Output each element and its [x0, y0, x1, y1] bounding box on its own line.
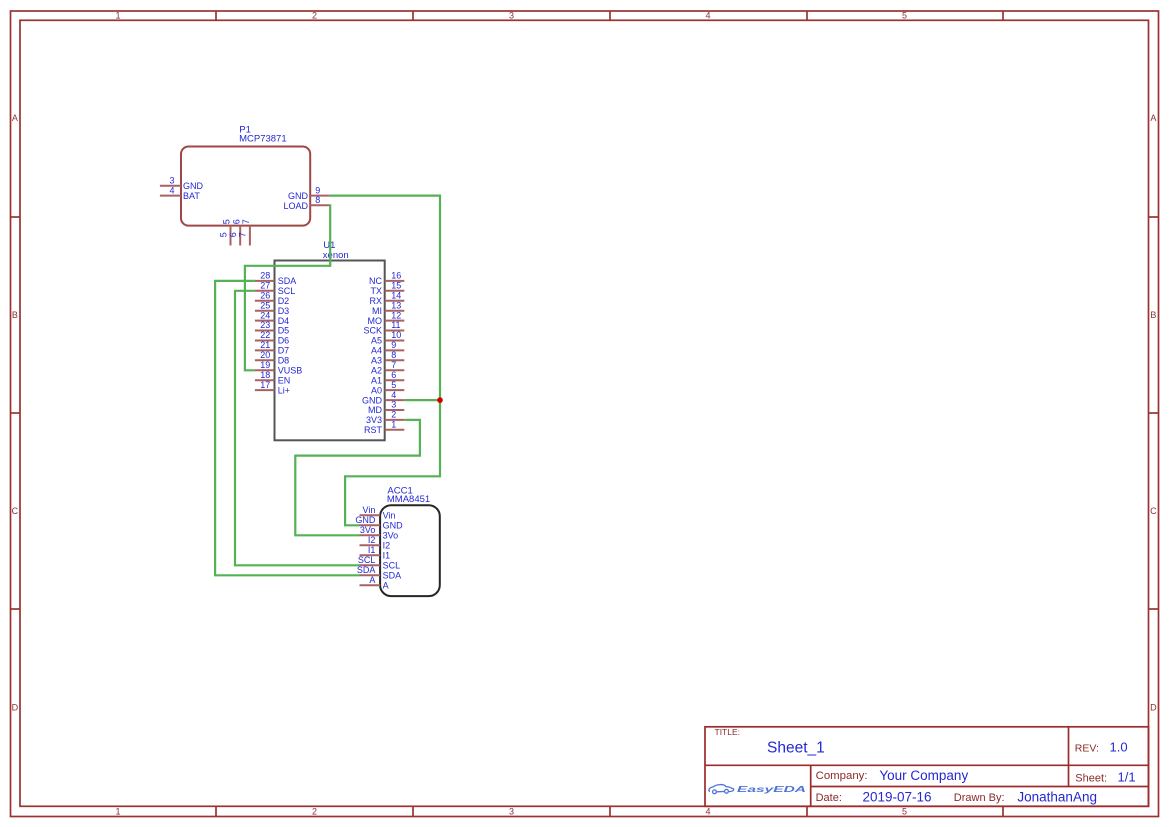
- pin 21 (D7) of U1: [255, 340, 289, 356]
- svg-text:4: 4: [705, 11, 710, 21]
- svg-text:A: A: [1150, 113, 1156, 123]
- svg-text:2: 2: [312, 807, 317, 817]
- svg-text:5: 5: [902, 807, 907, 817]
- svg-text:D4: D4: [278, 316, 290, 326]
- svg-text:20: 20: [260, 350, 270, 360]
- svg-text:6: 6: [231, 219, 241, 224]
- pin 25 (D3) of U1: [255, 300, 289, 316]
- svg-text:A: A: [369, 575, 375, 585]
- pin 23 (D5) of U1: [255, 320, 289, 336]
- svg-text:19: 19: [260, 360, 270, 370]
- svg-text:8: 8: [391, 350, 396, 360]
- svg-text:16: 16: [391, 271, 401, 281]
- pin 13 (MI) of U1: [372, 300, 404, 316]
- svg-text:C: C: [12, 506, 19, 516]
- svg-text:MI: MI: [372, 306, 382, 316]
- pin 24 (D4) of U1: [255, 310, 289, 326]
- svg-text:A0: A0: [371, 385, 382, 395]
- svg-text:A2: A2: [371, 366, 382, 376]
- svg-text:MD: MD: [368, 405, 382, 415]
- svg-text:21: 21: [260, 340, 270, 350]
- svg-text:3: 3: [391, 400, 396, 410]
- pin 15 (TX) of U1: [370, 281, 404, 297]
- svg-text:TITLE:: TITLE:: [715, 727, 741, 737]
- svg-text:2: 2: [391, 410, 396, 420]
- pin 8 (LOAD) of P1: [283, 195, 329, 211]
- svg-text:7: 7: [241, 219, 251, 224]
- svg-text:22: 22: [260, 330, 270, 340]
- pin 5 of P1 (bottom): [218, 219, 231, 245]
- svg-text:6: 6: [391, 370, 396, 380]
- wire net GND: P1 pin 9 to ACC1 GND: [330, 196, 440, 526]
- wire net LOAD: P1 pin 8 to U1 pin 19 VUSB: [245, 205, 330, 370]
- svg-text:14: 14: [391, 291, 401, 301]
- pin 16 (NC) of U1: [369, 271, 404, 287]
- pin 27 (SCL) of U1: [255, 281, 295, 297]
- pin I1 of ACC1: [360, 545, 391, 561]
- wire net 3V3: U1 pin 2 to ACC1 3Vo: [295, 420, 420, 535]
- svg-text:C: C: [1150, 506, 1157, 516]
- pin I2 of ACC1: [360, 535, 391, 551]
- svg-text:2: 2: [312, 11, 317, 21]
- svg-text:1: 1: [115, 807, 120, 817]
- pin 5 (A0) of U1: [371, 380, 404, 396]
- svg-text:SCL: SCL: [383, 561, 401, 571]
- svg-text:A5: A5: [371, 336, 382, 346]
- svg-text:7: 7: [238, 232, 248, 237]
- svg-text:Li+: Li+: [278, 385, 290, 395]
- svg-text:A1: A1: [371, 375, 382, 385]
- svg-text:VUSB: VUSB: [278, 366, 303, 376]
- svg-text:1: 1: [391, 420, 396, 430]
- svg-text:Sheet_1: Sheet_1: [767, 740, 825, 757]
- svg-text:D: D: [12, 703, 19, 713]
- svg-text:MO: MO: [368, 316, 383, 326]
- svg-text:8: 8: [315, 195, 320, 205]
- svg-text:24: 24: [260, 310, 270, 320]
- svg-text:SCL: SCL: [278, 286, 296, 296]
- svg-text:3Vo: 3Vo: [360, 525, 376, 535]
- svg-text:D: D: [1150, 703, 1157, 713]
- pin 11 (SCK) of U1: [363, 320, 404, 336]
- pin 1 (RST) of U1: [364, 420, 404, 436]
- svg-text:TX: TX: [370, 286, 382, 296]
- svg-text:LOAD: LOAD: [283, 201, 308, 211]
- pin 28 (SDA) of U1: [255, 271, 296, 287]
- pin 9 (A4) of U1: [371, 340, 404, 356]
- svg-text:2019-07-16: 2019-07-16: [863, 790, 932, 805]
- pin 3 (GND) of P1: [160, 176, 204, 192]
- pin 4 (BAT) of P1: [160, 185, 200, 201]
- pin 3 (MD) of U1: [368, 400, 404, 416]
- svg-text:GND: GND: [183, 181, 204, 191]
- svg-text:B: B: [12, 310, 18, 320]
- pin A of ACC1: [360, 575, 389, 591]
- svg-text:D2: D2: [278, 296, 290, 306]
- pin GND of ACC1: [355, 515, 403, 531]
- svg-text:A4: A4: [371, 346, 382, 356]
- svg-text:3V3: 3V3: [366, 415, 382, 425]
- svg-text:GND: GND: [383, 521, 404, 531]
- svg-text:3: 3: [509, 11, 514, 21]
- svg-text:JonathanAng: JonathanAng: [1017, 790, 1097, 805]
- svg-text:Drawn By:: Drawn By:: [954, 792, 1005, 804]
- svg-text:4: 4: [705, 807, 710, 817]
- svg-text:26: 26: [260, 291, 270, 301]
- svg-text:SCK: SCK: [363, 326, 382, 336]
- svg-text:D8: D8: [278, 356, 290, 366]
- svg-text:1/1: 1/1: [1118, 769, 1136, 784]
- svg-text:27: 27: [260, 281, 270, 291]
- svg-text:NC: NC: [369, 276, 382, 286]
- pin 7 (A2) of U1: [371, 360, 404, 376]
- svg-text:7: 7: [391, 360, 396, 370]
- svg-text:D7: D7: [278, 346, 290, 356]
- svg-text:I1: I1: [383, 551, 391, 561]
- pin 6 (A1) of U1: [371, 370, 404, 386]
- svg-text:MCP73871: MCP73871: [239, 134, 287, 145]
- pin 10 (A5) of U1: [371, 330, 404, 346]
- svg-text:I2: I2: [383, 541, 391, 551]
- svg-text:15: 15: [391, 281, 401, 291]
- pin 18 (EN) of U1: [255, 370, 290, 386]
- wire net GND: branch from U1 pin 4: [404, 399, 440, 401]
- svg-text:RST: RST: [364, 425, 383, 435]
- pin 4 (GND) of U1: [362, 390, 404, 406]
- pin 20 (D8) of U1: [255, 350, 289, 366]
- pin 3Vo of ACC1: [360, 525, 399, 541]
- svg-text:1.0: 1.0: [1110, 740, 1128, 755]
- pin SDA of ACC1: [357, 565, 401, 581]
- svg-text:BAT: BAT: [183, 191, 200, 201]
- pin 6 of P1 (bottom): [228, 219, 241, 245]
- connector P1 MCP73871 body: [181, 124, 310, 225]
- svg-text:23: 23: [260, 320, 270, 330]
- svg-text:4: 4: [391, 390, 396, 400]
- pin SCL of ACC1: [358, 555, 400, 571]
- svg-text:3: 3: [509, 807, 514, 817]
- pin Vin of ACC1: [360, 505, 396, 521]
- pin 26 (D2) of U1: [255, 291, 289, 307]
- pin 9 (GND) of P1: [288, 185, 330, 201]
- pin 14 (RX) of U1: [369, 291, 404, 307]
- svg-text:3Vo: 3Vo: [383, 531, 399, 541]
- svg-text:Date:: Date:: [816, 792, 842, 804]
- module ACC1 MMA8451 body: [380, 486, 440, 597]
- pin 8 (A3) of U1: [371, 350, 404, 366]
- svg-text:EN: EN: [278, 375, 291, 385]
- svg-text:9: 9: [391, 340, 396, 350]
- svg-text:25: 25: [260, 300, 270, 310]
- svg-text:4: 4: [169, 185, 174, 195]
- svg-text:5: 5: [218, 232, 228, 237]
- svg-text:A: A: [12, 113, 18, 123]
- svg-text:17: 17: [260, 380, 270, 390]
- svg-text:5: 5: [391, 380, 396, 390]
- wire net SDA: U1 pin 28 to ACC1 SDA: [215, 281, 359, 575]
- svg-text:6: 6: [228, 232, 238, 237]
- svg-text:Vin: Vin: [383, 511, 396, 521]
- svg-text:1: 1: [115, 11, 120, 21]
- svg-text:Vin: Vin: [363, 505, 376, 515]
- svg-text:Sheet:: Sheet:: [1075, 772, 1107, 784]
- pin 7 of P1 (bottom): [238, 219, 251, 245]
- svg-text:RX: RX: [369, 296, 382, 306]
- svg-text:13: 13: [391, 300, 401, 310]
- svg-text:5: 5: [222, 219, 232, 224]
- pin 19 (VUSB) of U1: [255, 360, 302, 376]
- svg-text:GND: GND: [362, 395, 383, 405]
- pin 22 (D6) of U1: [255, 330, 289, 346]
- svg-text:Company:: Company:: [816, 770, 868, 782]
- svg-text:B: B: [1150, 310, 1156, 320]
- svg-text:GND: GND: [288, 191, 309, 201]
- pin 17 (Li+) of U1: [255, 380, 290, 396]
- svg-text:SDA: SDA: [357, 565, 376, 575]
- svg-text:D6: D6: [278, 336, 290, 346]
- svg-text:5: 5: [902, 11, 907, 21]
- pin 2 (3V3) of U1: [366, 410, 404, 426]
- svg-text:D3: D3: [278, 306, 290, 316]
- svg-text:SDA: SDA: [383, 571, 402, 581]
- svg-text:28: 28: [260, 271, 270, 281]
- svg-text:GND: GND: [355, 515, 376, 525]
- svg-text:SCL: SCL: [358, 555, 376, 565]
- svg-text:REV:: REV:: [1075, 743, 1099, 755]
- svg-text:9: 9: [315, 185, 320, 195]
- svg-text:A3: A3: [371, 356, 382, 366]
- svg-text:D5: D5: [278, 326, 290, 336]
- svg-text:A: A: [383, 581, 389, 591]
- junction node net GND: [437, 397, 443, 403]
- svg-text:I1: I1: [368, 545, 376, 555]
- svg-text:I2: I2: [368, 535, 376, 545]
- svg-text:12: 12: [391, 310, 401, 320]
- wire net SCL: U1 pin 27 to ACC1 SCL: [235, 291, 360, 566]
- svg-text:Your Company: Your Company: [879, 768, 968, 783]
- svg-text:11: 11: [391, 320, 400, 330]
- svg-text:3: 3: [169, 176, 174, 186]
- IC U1 xenon body: [275, 240, 385, 440]
- svg-text:MMA8451: MMA8451: [387, 494, 430, 505]
- svg-text:18: 18: [260, 370, 270, 380]
- svg-text:SDA: SDA: [278, 276, 297, 286]
- svg-text:10: 10: [391, 330, 401, 340]
- svg-text:EasyEDA: EasyEDA: [737, 784, 806, 794]
- svg-text:xenon: xenon: [323, 250, 349, 261]
- pin 12 (MO) of U1: [368, 310, 405, 326]
